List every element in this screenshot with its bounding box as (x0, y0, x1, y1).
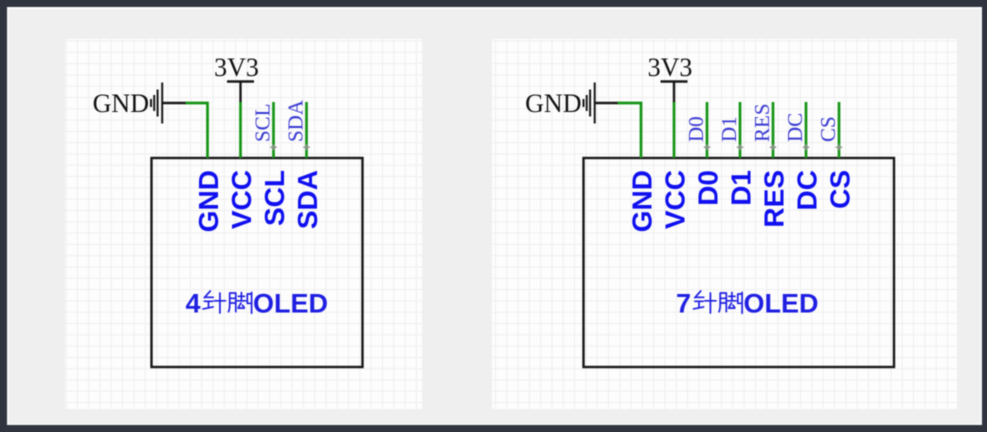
junction marker SCL (270, 144, 276, 150)
wire VCC-right (673, 102, 676, 158)
svg-text:SCL: SCL (251, 103, 275, 142)
svg-text:DC: DC (783, 113, 807, 142)
svg-text:SCL: SCL (259, 170, 290, 226)
svg-text:D1: D1 (717, 116, 741, 142)
svg-text:VCC: VCC (226, 170, 257, 229)
wire DC (805, 102, 808, 158)
svg-text:VCC: VCC (660, 170, 691, 229)
wire D1 (739, 102, 742, 158)
text 4针脚OLED (186, 289, 329, 319)
svg-text:SDA: SDA (292, 170, 323, 229)
wire CS (838, 102, 841, 158)
junction marker SDA (303, 144, 309, 150)
junction marker D1 (737, 144, 743, 150)
ground (584, 83, 595, 124)
svg-text:D0: D0 (693, 170, 724, 206)
svg-text:D1: D1 (726, 170, 757, 206)
wire GND stub right (596, 102, 619, 104)
junction marker D0 (704, 144, 710, 150)
wire GND stub (163, 102, 187, 104)
svg-text:CS: CS (816, 116, 840, 142)
svg-text:GND: GND (627, 170, 658, 232)
svg-text:DC: DC (792, 170, 823, 210)
junction marker DC (803, 144, 809, 150)
svg-text:D0: D0 (684, 116, 708, 142)
ground (151, 83, 162, 124)
svg-text:GND: GND (193, 170, 224, 232)
component box 4-pin OLED (152, 158, 363, 367)
wire D0 (706, 102, 709, 158)
wire GND net right (618, 103, 642, 158)
wire RES (772, 102, 775, 158)
svg-text:GND: GND (93, 89, 149, 118)
power port 3V3 (661, 80, 688, 83)
wire VCC-left (239, 102, 242, 158)
svg-text:GND: GND (525, 89, 581, 118)
svg-text:CS: CS (825, 170, 856, 209)
component box 7-pin OLED (584, 158, 895, 367)
svg-text:RES: RES (750, 103, 774, 142)
svg-text:SDA: SDA (284, 99, 308, 142)
svg-text:4: 4 (186, 289, 201, 319)
svg-text:7: 7 (676, 289, 691, 319)
wire SCL (272, 102, 275, 158)
svg-text:OLED: OLED (744, 289, 819, 319)
text 7针脚OLED (676, 289, 819, 319)
svg-text:3V3: 3V3 (648, 53, 693, 82)
junction marker RES (770, 144, 776, 150)
power port 3V3 (227, 80, 254, 83)
junction marker CS (836, 144, 842, 150)
wire SDA (305, 102, 308, 158)
svg-text:3V3: 3V3 (214, 53, 259, 82)
svg-text:RES: RES (759, 170, 790, 228)
svg-text:OLED: OLED (253, 289, 328, 319)
wire GND net (186, 103, 208, 158)
